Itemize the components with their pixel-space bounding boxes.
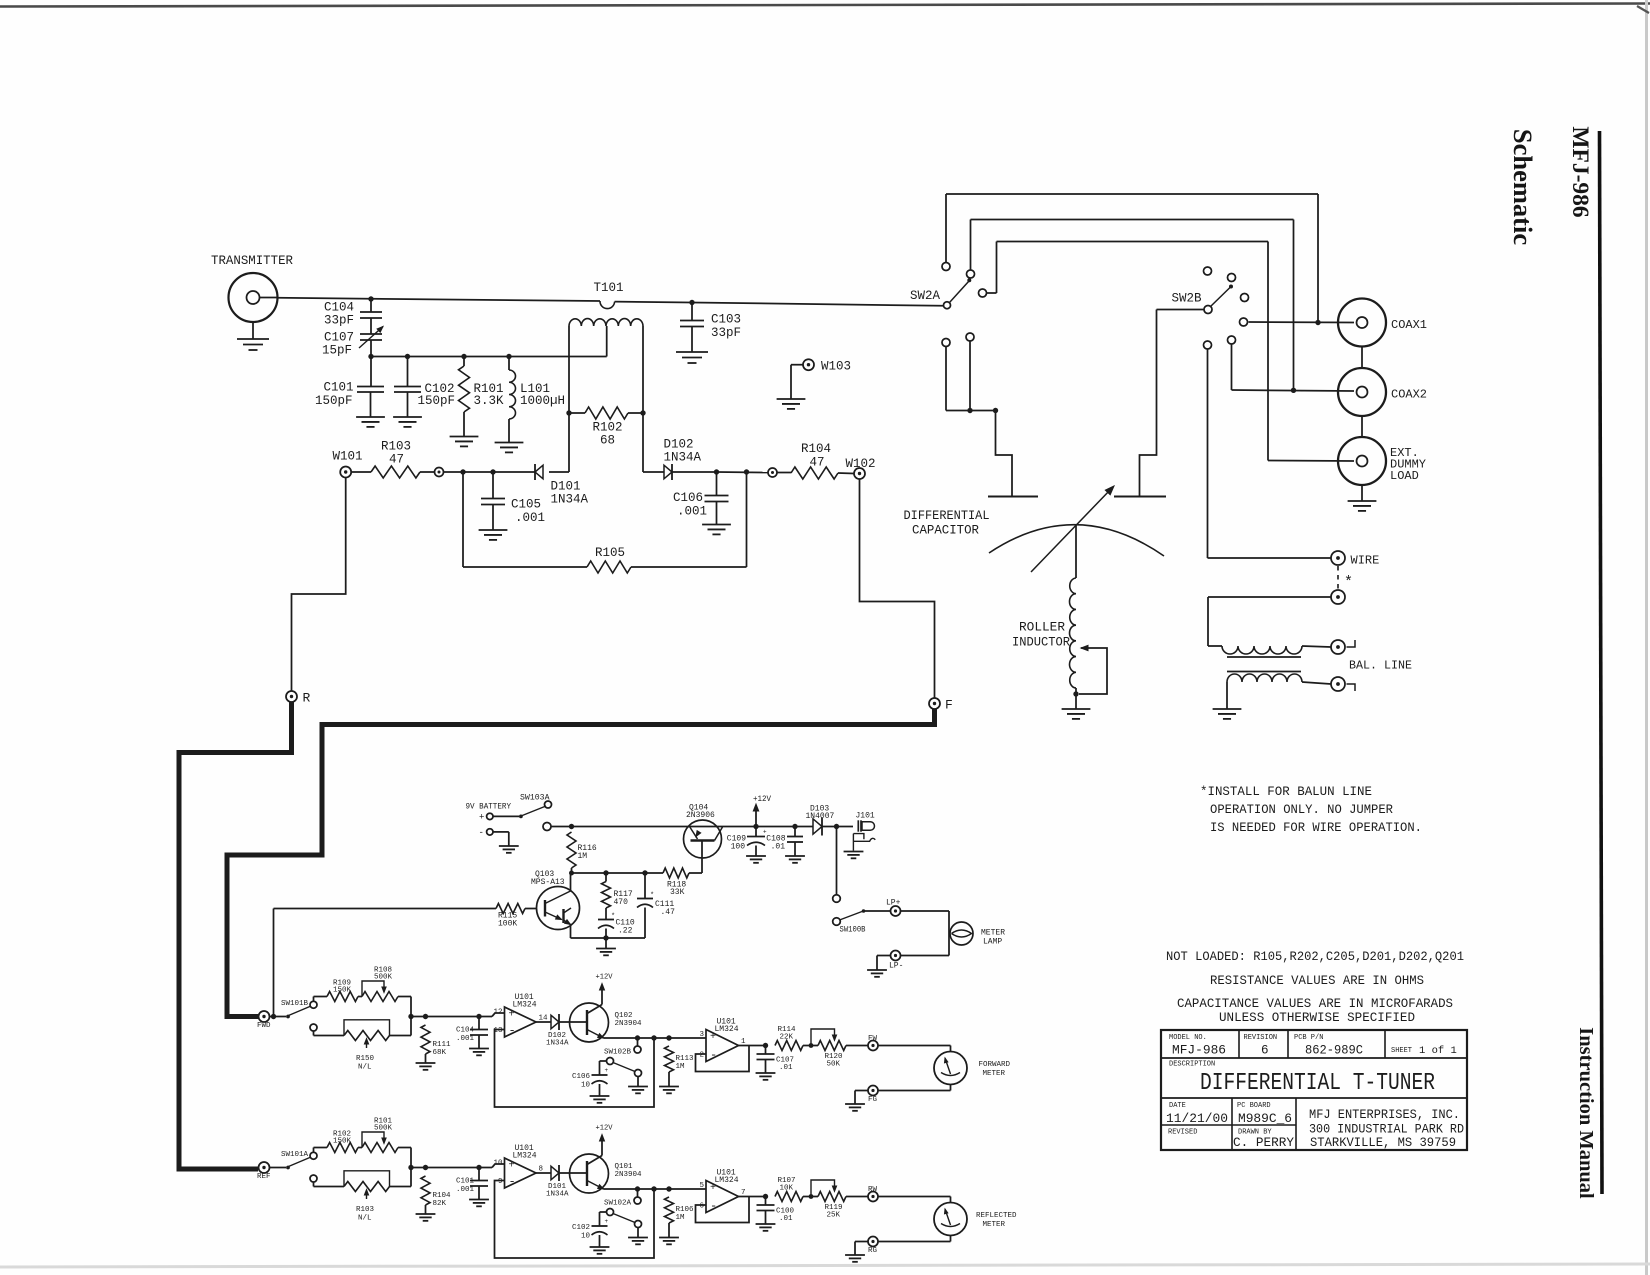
svg-text:150pF: 150pF xyxy=(418,394,456,408)
wire tap to R115 xyxy=(271,1014,276,1019)
node C103 xyxy=(689,300,694,305)
inductor roller xyxy=(1075,525,1077,578)
wire T101 center tap xyxy=(606,326,608,357)
capacitor C111 xyxy=(644,873,646,899)
svg-text:LM324: LM324 xyxy=(715,1176,739,1185)
page bottom edge shadow xyxy=(0,1264,1650,1267)
capacitor C106 bridge xyxy=(714,469,719,474)
wire eedback first stage xyxy=(495,1030,655,1108)
svg-text:C. PERRY: C. PERRY xyxy=(1233,1136,1295,1150)
svg-text:LOAD: LOAD xyxy=(1390,469,1419,483)
svg-text:MODEL NO.: MODEL NO. xyxy=(1169,1034,1207,1042)
capacitor C101 xyxy=(476,1165,481,1170)
svg-text:NOT LOADED: R105,R202,C205,D20: NOT LOADED: R105,R202,C205,D201,D202,Q20… xyxy=(1166,950,1464,964)
wire SW2A contact2 to COAX2 line xyxy=(970,220,972,271)
capacitor C109 xyxy=(755,827,757,837)
svg-text:33pF: 33pF xyxy=(324,314,354,328)
resistor R109 xyxy=(313,997,315,1002)
svg-text:.22: .22 xyxy=(618,927,633,936)
ground J101 xyxy=(844,851,864,853)
svg-text:11/21/00: 11/21/00 xyxy=(1166,1112,1228,1126)
svg-text:MPS-A13: MPS-A13 xyxy=(531,878,565,887)
page top-right corner mark xyxy=(1637,6,1649,13)
svg-text:METER: METER xyxy=(981,929,1005,938)
ground balun xyxy=(1213,708,1242,710)
wire to W102 xyxy=(744,469,749,474)
diode D103 xyxy=(813,819,822,834)
connector FG xyxy=(868,1086,878,1096)
ground C107 xyxy=(756,1072,776,1074)
wire SW2A contact3 to dummy-load line xyxy=(987,292,997,294)
potentiometer R150 not loaded xyxy=(313,1031,315,1036)
ground C103 xyxy=(676,351,708,353)
svg-text:R105: R105 xyxy=(595,546,625,560)
ground SW102A xyxy=(628,1237,648,1239)
svg-text:.001: .001 xyxy=(677,505,707,519)
svg-text:SW102A: SW102A xyxy=(604,1200,632,1208)
svg-text:1M: 1M xyxy=(578,852,588,861)
svg-text:R106: R106 xyxy=(676,1206,695,1214)
svg-text:50K: 50K xyxy=(827,1061,841,1069)
ground C102 xyxy=(590,1246,610,1248)
wire W101 to R terminal xyxy=(292,478,346,692)
svg-text:100K: 100K xyxy=(498,920,517,929)
svg-text:Q102: Q102 xyxy=(615,1012,633,1020)
resistor R105 branch xyxy=(462,472,464,567)
differential capacitor right stator xyxy=(1114,496,1166,498)
svg-text:1 of 1: 1 of 1 xyxy=(1419,1045,1457,1057)
ground R106 xyxy=(659,1237,679,1239)
svg-text:UNLESS OTHERWISE SPECIFIED: UNLESS OTHERWISE SPECIFIED xyxy=(1219,1011,1415,1025)
connector R xyxy=(286,691,297,702)
svg-text:*: * xyxy=(650,892,654,900)
svg-text:12: 12 xyxy=(493,1009,502,1017)
capacitor C107 xyxy=(765,1046,767,1055)
ground C105 xyxy=(479,529,508,531)
wire Q102 collector +12V xyxy=(587,1005,602,1014)
balun primary winding xyxy=(1208,645,1222,647)
svg-text:R150: R150 xyxy=(356,1055,375,1063)
connector RG xyxy=(868,1237,878,1247)
wire to ground xyxy=(855,1241,868,1243)
svg-text:2N3906: 2N3906 xyxy=(686,811,715,820)
svg-text:22K: 22K xyxy=(780,1034,794,1042)
connector BAL LINE top xyxy=(1331,640,1345,654)
ground C102 xyxy=(393,416,422,418)
potentiometer R101 xyxy=(358,1147,362,1149)
svg-text:PC BOARD: PC BOARD xyxy=(1237,1102,1271,1110)
differential capacitor rotor xyxy=(989,525,1164,556)
svg-text:OPERATION ONLY. NO JUMPER: OPERATION ONLY. NO JUMPER xyxy=(1210,803,1393,817)
wire to D101 xyxy=(444,471,536,473)
svg-text:R104: R104 xyxy=(801,442,831,456)
svg-text:M989C_6: M989C_6 xyxy=(1238,1112,1292,1126)
wire Q101 emitter xyxy=(587,1181,604,1190)
svg-text:R111: R111 xyxy=(433,1041,452,1049)
wire Q103 emitter xyxy=(570,925,572,939)
wire to ground xyxy=(855,1090,868,1092)
wire FWD input xyxy=(270,1016,287,1018)
svg-text:2N3904: 2N3904 xyxy=(615,1171,643,1179)
svg-text:SW101B: SW101B xyxy=(281,1000,309,1008)
wire roller to ground xyxy=(1075,688,1077,709)
balun secondary winding xyxy=(1227,674,1302,682)
svg-text:+: + xyxy=(605,1218,609,1225)
wire feedback second stage xyxy=(696,1197,750,1223)
wire balun secondary to ground xyxy=(1226,682,1228,709)
ground L101 xyxy=(495,442,524,444)
svg-text:LM324: LM324 xyxy=(513,1152,537,1161)
svg-text:150K: 150K xyxy=(333,987,352,995)
potentiometer R103 not loaded xyxy=(313,1182,315,1187)
svg-text:R102: R102 xyxy=(593,421,623,435)
svg-text:2N3904: 2N3904 xyxy=(615,1020,643,1028)
svg-text:REF: REF xyxy=(257,1173,271,1181)
svg-text:+: + xyxy=(605,1067,609,1074)
svg-text:3.3K: 3.3K xyxy=(474,394,505,408)
wire power rail xyxy=(543,823,551,831)
ground Q103 emitter xyxy=(605,938,607,949)
diode D101 xyxy=(534,464,536,480)
ground SW102B xyxy=(628,1086,648,1088)
meter REFLECTED xyxy=(934,1203,967,1236)
svg-text:C104: C104 xyxy=(324,301,354,315)
svg-text:LP-: LP- xyxy=(889,962,903,971)
svg-text:6: 6 xyxy=(699,1203,704,1211)
capacitor C102 xyxy=(407,357,409,387)
svg-text:1000µH: 1000µH xyxy=(520,394,565,408)
ground roller inductor xyxy=(1062,708,1091,710)
wire eedback first stage xyxy=(495,1181,655,1259)
svg-text:ROLLER: ROLLER xyxy=(1019,621,1066,635)
svg-text:C101: C101 xyxy=(323,381,353,395)
svg-text:-: - xyxy=(509,1175,516,1189)
diode D102 xyxy=(664,465,672,479)
svg-text:.001: .001 xyxy=(456,1035,475,1043)
svg-text:LP+: LP+ xyxy=(886,899,901,908)
wire lamp to LP- xyxy=(901,955,950,957)
svg-text:W103: W103 xyxy=(821,360,851,374)
svg-text:862-989C: 862-989C xyxy=(1305,1044,1363,1058)
svg-text:COAX2: COAX2 xyxy=(1391,388,1427,402)
svg-text:-: - xyxy=(710,1048,717,1062)
svg-text:+12V: +12V xyxy=(596,1125,613,1133)
svg-text:STARKVILLE, MS 39759: STARKVILLE, MS 39759 xyxy=(1310,1136,1456,1150)
svg-text:R: R xyxy=(303,691,311,706)
connector BAL LINE bottom xyxy=(1331,677,1345,691)
wire SW2A lower contacts to differential capacitor xyxy=(945,347,947,411)
ground R104 xyxy=(416,1213,436,1215)
svg-text:-: - xyxy=(509,1024,516,1038)
resistor R107 xyxy=(775,1192,803,1202)
svg-text:+: + xyxy=(479,813,484,823)
svg-text:+: + xyxy=(509,1161,515,1172)
svg-text:1N4007: 1N4007 xyxy=(806,812,835,821)
resistor R106 xyxy=(665,1197,674,1223)
wire LP- to ground xyxy=(877,955,891,957)
wire thick F to FWD xyxy=(227,709,935,1017)
connector COAX1 xyxy=(1338,299,1386,347)
svg-text:+12V: +12V xyxy=(753,795,771,804)
ground C108 xyxy=(785,855,805,857)
svg-text:COAX1: COAX1 xyxy=(1391,318,1427,332)
svg-text:CAPACITANCE VALUES ARE IN MICR: CAPACITANCE VALUES ARE IN MICROFARADS xyxy=(1177,997,1453,1011)
wire R118 to Q104 base xyxy=(689,872,702,874)
wire D101 up to T101 secondary xyxy=(568,413,570,472)
svg-text:C106: C106 xyxy=(673,491,703,505)
resistor R118 xyxy=(663,868,689,878)
svg-text:9V BATTERY: 9V BATTERY xyxy=(466,803,512,812)
wire main line to SW2A xyxy=(615,301,692,304)
resistor R101 xyxy=(463,357,465,367)
svg-text:10: 10 xyxy=(581,1082,591,1090)
svg-text:INDUCTOR: INDUCTOR xyxy=(1012,636,1070,650)
ground C101 xyxy=(469,1199,489,1201)
page side rule xyxy=(1600,131,1603,1194)
connector COAX2 xyxy=(1338,368,1386,416)
svg-text:SHEET: SHEET xyxy=(1391,1047,1412,1055)
svg-text:C102: C102 xyxy=(572,1224,590,1232)
transformer T101 secondary xyxy=(569,319,643,326)
svg-text:C106: C106 xyxy=(572,1073,591,1081)
wire branch join xyxy=(410,1148,412,1187)
page right edge shadow xyxy=(1645,0,1648,1275)
svg-text:3: 3 xyxy=(699,1031,704,1039)
wire coax shells xyxy=(1361,347,1363,369)
svg-text:RESISTANCE VALUES ARE IN OHMS: RESISTANCE VALUES ARE IN OHMS xyxy=(1210,974,1424,988)
capacitor C100 xyxy=(765,1197,767,1206)
svg-text:-: - xyxy=(710,1199,717,1213)
svg-text:DATE: DATE xyxy=(1169,1102,1186,1110)
connector WIRE xyxy=(1331,551,1345,565)
roller inductor tap xyxy=(1081,645,1088,650)
svg-text:68: 68 xyxy=(600,434,615,448)
svg-text:REFLECTED: REFLECTED xyxy=(976,1212,1017,1220)
wire branch join xyxy=(410,997,412,1036)
svg-text:T101: T101 xyxy=(594,281,624,295)
svg-text:Instruction Manual: Instruction Manual xyxy=(1575,1027,1597,1199)
svg-text:C103: C103 xyxy=(711,313,741,327)
wire SW2B pivot to right stator xyxy=(1157,309,1205,311)
svg-text:.47: .47 xyxy=(661,908,676,917)
wire dummy line to EXT pin xyxy=(1268,460,1354,463)
wire LP+ to lamp xyxy=(901,910,950,912)
svg-text:DESCRIPTION: DESCRIPTION xyxy=(1169,1061,1215,1069)
svg-text:IS NEEDED FOR WIRE OPERATION.: IS NEEDED FOR WIRE OPERATION. xyxy=(1210,821,1422,835)
op-amp U101 first stage xyxy=(492,1164,505,1168)
wire main line xyxy=(278,298,601,301)
ground C109 xyxy=(746,855,766,857)
arrow +12V rail xyxy=(755,810,757,827)
svg-text:TRANSMITTER: TRANSMITTER xyxy=(211,254,293,268)
wire REF input xyxy=(270,1167,287,1169)
svg-text:R104: R104 xyxy=(433,1192,452,1200)
connector RW xyxy=(868,1192,878,1202)
ground R101 xyxy=(450,436,479,438)
wire output xyxy=(739,1196,766,1198)
ground transmitter xyxy=(252,322,254,339)
svg-text:500K: 500K xyxy=(374,974,393,982)
svg-text:LM324: LM324 xyxy=(513,1001,537,1010)
connector FW xyxy=(868,1041,878,1051)
svg-text:SW102B: SW102B xyxy=(604,1049,632,1057)
op-amp U101 second stage xyxy=(706,1030,739,1062)
svg-text:.001: .001 xyxy=(456,1186,475,1194)
svg-text:D102: D102 xyxy=(664,438,694,452)
svg-text:33K: 33K xyxy=(670,888,685,897)
svg-text:C101: C101 xyxy=(456,1178,475,1186)
svg-text:DIFFERENTIAL T-TUNER: DIFFERENTIAL T-TUNER xyxy=(1200,1070,1435,1097)
svg-text:10K: 10K xyxy=(780,1185,794,1193)
wire feedback second stage xyxy=(696,1046,750,1072)
connector REF xyxy=(259,1162,270,1173)
svg-text:SW100B: SW100B xyxy=(840,926,866,935)
svg-text:R103: R103 xyxy=(356,1206,375,1214)
resistor R111 shunt xyxy=(423,1014,428,1019)
svg-text:N/L: N/L xyxy=(358,1215,372,1223)
svg-text:BAL. LINE: BAL. LINE xyxy=(1349,659,1412,673)
wire Q103 collector xyxy=(570,873,572,891)
capacitor C104 xyxy=(476,1014,481,1019)
title block frame xyxy=(1161,1030,1467,1150)
svg-text:1N34A: 1N34A xyxy=(551,493,589,507)
svg-text:SW2A: SW2A xyxy=(910,289,941,303)
wire coax shells 2 xyxy=(1361,416,1363,437)
svg-text:.01: .01 xyxy=(771,843,786,852)
svg-text:1M: 1M xyxy=(676,1214,686,1222)
capacitor C104 xyxy=(370,299,372,312)
svg-text:R113: R113 xyxy=(676,1055,695,1063)
svg-text:.01: .01 xyxy=(779,1064,793,1072)
svg-text:+12V: +12V xyxy=(596,974,613,982)
svg-text:9: 9 xyxy=(498,1178,503,1186)
svg-text:FW: FW xyxy=(868,1035,878,1043)
inductor L101 xyxy=(508,357,510,371)
wire W102 to F terminal xyxy=(860,479,935,698)
ground C101 xyxy=(356,416,385,418)
wire meter return xyxy=(950,1085,952,1091)
balun core xyxy=(1227,656,1301,658)
svg-text:33pF: 33pF xyxy=(711,326,741,340)
svg-text:1N34A: 1N34A xyxy=(546,1191,569,1199)
wire LC node xyxy=(371,356,607,358)
meter FORWARD xyxy=(934,1052,967,1085)
op-amp U101 first stage xyxy=(492,1013,505,1017)
svg-text:REVISION: REVISION xyxy=(1244,1034,1278,1042)
resistor R113 xyxy=(665,1046,674,1072)
wire jumper to balun xyxy=(1208,596,1331,598)
svg-text:*: * xyxy=(1344,574,1353,591)
svg-text:C105: C105 xyxy=(511,498,541,512)
jumper point before R104 xyxy=(768,468,777,477)
svg-text:15pF: 15pF xyxy=(322,344,352,358)
potentiometer R119 xyxy=(809,1194,814,1199)
resistor R114 xyxy=(775,1041,803,1051)
potentiometer R120 xyxy=(809,1043,814,1048)
node C104 top xyxy=(368,296,373,301)
resistor R104 shunt xyxy=(423,1165,428,1170)
svg-text:1M: 1M xyxy=(676,1063,686,1071)
diode D102 xyxy=(536,1021,551,1023)
svg-text:47: 47 xyxy=(389,453,404,467)
svg-text:N/L: N/L xyxy=(358,1064,372,1072)
resistor R102 xyxy=(566,410,571,415)
connector F xyxy=(929,698,940,709)
wire SW2A contact1 to COAX1 line xyxy=(945,194,947,263)
svg-text:+: + xyxy=(509,1010,515,1021)
svg-text:470: 470 xyxy=(614,898,629,907)
connector EXT DUMMY LOAD xyxy=(1338,437,1386,485)
svg-text:1N34A: 1N34A xyxy=(664,451,702,465)
svg-text:.01: .01 xyxy=(779,1215,793,1223)
wire SW2B contact to WIRE terminal xyxy=(1207,349,1209,558)
wire meter return xyxy=(950,1236,952,1242)
svg-text:300 INDUSTRIAL PARK RD: 300 INDUSTRIAL PARK RD xyxy=(1309,1123,1464,1137)
svg-text:5: 5 xyxy=(699,1182,704,1190)
svg-text:METER: METER xyxy=(983,1221,1006,1229)
transistor Q101 2N3904 xyxy=(570,1154,609,1193)
ground W103 xyxy=(777,398,806,400)
resistor R102 xyxy=(313,1148,315,1153)
svg-text:FORWARD: FORWARD xyxy=(979,1061,1011,1069)
svg-text:DIFFERENTIAL: DIFFERENTIAL xyxy=(904,509,990,523)
svg-text:METER: METER xyxy=(983,1070,1006,1078)
svg-text:-: - xyxy=(479,828,484,838)
differential capacitor left stator xyxy=(988,496,1038,498)
ground FG xyxy=(845,1103,865,1105)
svg-text:LAMP: LAMP xyxy=(983,938,1002,947)
ground C106 xyxy=(590,1095,610,1097)
connector LP+ xyxy=(891,906,901,916)
ground battery xyxy=(499,845,519,847)
diode D101 xyxy=(536,1172,551,1174)
wire to meter xyxy=(878,1196,951,1198)
connector LP- xyxy=(891,951,901,961)
svg-text:J101: J101 xyxy=(856,812,875,821)
svg-text:C107: C107 xyxy=(324,331,354,345)
svg-text:10: 10 xyxy=(581,1233,591,1241)
svg-text:SW101A: SW101A xyxy=(281,1151,309,1159)
connector FWD xyxy=(259,1011,270,1022)
svg-text:25K: 25K xyxy=(827,1212,841,1220)
wire to LP+ xyxy=(864,910,891,912)
ground R113 xyxy=(659,1086,679,1088)
capacitor C106 xyxy=(600,1060,607,1062)
svg-text:2: 2 xyxy=(699,1052,704,1060)
wire Q101 collector +12V xyxy=(587,1156,602,1165)
wire R102 to D102 xyxy=(642,413,644,472)
svg-text:SW2B: SW2B xyxy=(1172,292,1203,306)
resistor R115 xyxy=(274,908,497,910)
svg-text:500K: 500K xyxy=(374,1125,393,1133)
svg-text:W101: W101 xyxy=(333,450,363,464)
jumper point after R103 xyxy=(435,468,444,477)
svg-text:1N34A: 1N34A xyxy=(546,1040,569,1048)
ground EXT dummy load xyxy=(1361,485,1363,501)
page top edge line xyxy=(0,4,1650,7)
capacitor C108 xyxy=(794,827,796,837)
capacitor C101 xyxy=(370,357,372,387)
svg-text:F: F xyxy=(945,698,953,713)
svg-text:REVISED: REVISED xyxy=(1168,1129,1197,1137)
svg-text:Q101: Q101 xyxy=(615,1163,634,1171)
connector W103 xyxy=(803,359,814,370)
svg-text:WIRE: WIRE xyxy=(1351,554,1380,568)
capacitor C105 xyxy=(492,472,494,499)
svg-text:100: 100 xyxy=(731,843,746,852)
svg-text:150pF: 150pF xyxy=(315,394,353,408)
ground C104 xyxy=(469,1048,489,1050)
